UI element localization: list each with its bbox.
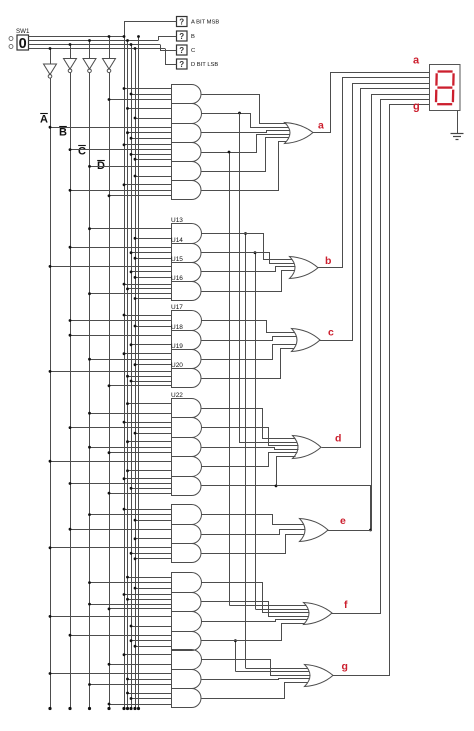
- wire U14 to OR b: [202, 253, 295, 264]
- wire input U16.1: [123, 283, 172, 286]
- AND gate G27: [172, 650, 202, 670]
- AND gate U19: [171, 343, 201, 369]
- svg-text:f: f: [344, 599, 348, 611]
- wire to B probe: [159, 37, 173, 41]
- svg-text:U22: U22: [171, 392, 183, 399]
- wire input G28.1: [49, 672, 172, 675]
- inverter U3: [83, 39, 96, 73]
- AND gate U14: [171, 237, 201, 263]
- wire d5 to OR d: [202, 457, 296, 488]
- AND gate G20: [172, 505, 202, 525]
- wire input U17.3: [134, 325, 172, 328]
- svg-text:U19: U19: [171, 343, 183, 350]
- label segment e: [340, 515, 346, 527]
- svg-text:b: b: [325, 255, 331, 267]
- wire input G24.3: [88, 603, 171, 606]
- AND gate U18: [171, 324, 201, 350]
- wire input G22.2: [130, 552, 172, 555]
- net A2 bus: [137, 35, 140, 710]
- wire segment a to display: [313, 73, 430, 133]
- wire channel vE: [234, 639, 237, 671]
- wire to D probe: [166, 49, 173, 65]
- wire input G16.1: [123, 421, 172, 424]
- wire input G25.2: [130, 625, 172, 628]
- svg-text:g: g: [342, 661, 348, 673]
- wire a1 to OR a: [202, 95, 287, 124]
- AND gate G21: [172, 525, 202, 544]
- wire input G20.2: [88, 513, 171, 516]
- label segment a: [318, 120, 324, 132]
- wire input U19.2: [88, 358, 171, 361]
- net B bus: [126, 39, 129, 710]
- wire d1 to OR d: [202, 409, 296, 439]
- svg-text:e: e: [340, 515, 346, 527]
- wire U15 to OR b: [202, 267, 296, 272]
- wire input G22.1: [49, 546, 172, 549]
- wire input U13.2: [134, 237, 172, 240]
- inverter U2: [64, 43, 77, 73]
- wire input G19.4: [108, 492, 172, 495]
- wire d3 to OR d: [202, 448, 299, 450]
- wire input G2.2: [134, 117, 172, 120]
- AND gate G16: [172, 418, 202, 438]
- svg-text:U13: U13: [171, 217, 183, 224]
- wire input G18.2: [126, 469, 171, 472]
- wire input G19.1: [123, 477, 172, 480]
- wire input G26.1: [69, 634, 172, 637]
- ground: [451, 111, 464, 140]
- wire input G1.3: [108, 98, 172, 101]
- wire input U20.2: [126, 375, 171, 378]
- wire f3 to OR f: [202, 620, 308, 622]
- wire input U13.1: [88, 227, 171, 230]
- svg-text:A BIT MSB: A BIT MSB: [191, 20, 219, 26]
- net A bus: [122, 35, 125, 710]
- IO probe C: [173, 45, 196, 55]
- AND gate G3: [172, 124, 202, 143]
- label Cbar: [78, 146, 86, 158]
- label segment b: [325, 255, 331, 267]
- AND gate G18: [172, 457, 202, 477]
- svg-text:?: ?: [179, 18, 184, 27]
- wire input G24.2: [126, 598, 171, 601]
- svg-text:B: B: [59, 127, 67, 139]
- wire e3 to OR e: [202, 535, 305, 554]
- wire a5 to OR a: [202, 138, 289, 172]
- AND gate G19: [172, 477, 202, 496]
- AND gate U17: [171, 304, 201, 331]
- wire input G24.4: [108, 608, 172, 611]
- inverter U1: [44, 47, 57, 78]
- wire input G16.2: [69, 426, 172, 429]
- svg-text:B: B: [191, 34, 195, 40]
- OR gate c: [292, 329, 321, 352]
- wire channel vC: [244, 232, 247, 668]
- svg-text:C: C: [78, 146, 86, 158]
- wire input U19.3: [134, 363, 172, 366]
- net D bus: [133, 47, 136, 710]
- wire segment d to display: [322, 89, 430, 448]
- wire input G21.2: [134, 537, 172, 540]
- wire vE to OR g: [236, 671, 310, 673]
- label segment d: [335, 433, 341, 445]
- wire input U18.1: [69, 334, 172, 337]
- wire channel vB: [239, 113, 241, 442]
- wire U17 to OR c: [202, 321, 295, 333]
- wire input G3.1: [49, 126, 172, 129]
- wire g2 to OR g: [202, 679, 310, 680]
- svg-text:g: g: [413, 101, 420, 113]
- AND gate G17: [172, 438, 202, 457]
- svg-text:C: C: [191, 48, 195, 54]
- label Dbar: [97, 160, 105, 172]
- wire input G6.1: [123, 183, 172, 186]
- AND gate U22: [171, 392, 201, 418]
- wire U13 to OR b: [202, 234, 293, 260]
- AND gate G26: [172, 632, 202, 651]
- switch SW1: [9, 28, 30, 52]
- wire input U14.2: [130, 251, 172, 254]
- net Abar bus: [48, 78, 51, 710]
- AND gate U15: [171, 256, 201, 282]
- wire input G20.3: [134, 519, 172, 522]
- wire U18 to OR c: [202, 337, 297, 341]
- wire D from SW1: [29, 48, 166, 50]
- wire input U15.3: [134, 276, 172, 279]
- AND gate G25: [172, 612, 202, 632]
- wire U16 to OR b: [202, 271, 295, 292]
- wire input U14.3: [134, 257, 172, 260]
- AND gate G22: [172, 544, 202, 563]
- svg-text:a: a: [318, 120, 324, 132]
- OR gate f: [304, 603, 333, 625]
- OR gate g: [305, 665, 334, 687]
- net Bbar bus: [68, 73, 71, 711]
- wire input G28.3: [88, 683, 171, 686]
- label display g: [413, 101, 420, 113]
- wire input G21.1: [69, 528, 172, 531]
- OR gate b: [290, 257, 319, 279]
- svg-text:SW1: SW1: [16, 28, 30, 35]
- wire input G17.3: [108, 451, 172, 454]
- AND gate G2: [172, 104, 202, 124]
- wire input U15.1: [49, 265, 172, 268]
- wire a4 to OR a: [202, 135, 290, 153]
- wire input G5.1: [88, 165, 171, 168]
- svg-text:D BIT LSB: D BIT LSB: [191, 62, 218, 68]
- wire input G24.1: [123, 593, 172, 596]
- wire input G4.4: [134, 158, 172, 161]
- OR gate e: [300, 519, 329, 542]
- wire input U22.2: [88, 412, 171, 415]
- wire segment g to display: [333, 105, 430, 676]
- svg-text:A: A: [40, 114, 48, 126]
- wire input G19.3: [130, 487, 172, 490]
- AND gate U16: [171, 275, 201, 301]
- wire input G17.2: [88, 446, 171, 449]
- wire d5 branch to e-net: [277, 486, 372, 532]
- svg-text:?: ?: [179, 46, 184, 55]
- label display a: [413, 55, 420, 67]
- OR gate d: [293, 436, 322, 459]
- wire vD to OR f: [256, 609, 309, 611]
- wire input U19.1: [123, 352, 172, 355]
- wire e2 to OR e: [202, 530, 306, 535]
- wire input U16.3: [88, 292, 171, 295]
- wire input G25.1: [49, 615, 172, 618]
- wire to C probe: [161, 45, 173, 51]
- svg-text:?: ?: [179, 32, 184, 41]
- AND gate G28: [172, 670, 202, 689]
- wire g1 to OR g: [202, 660, 311, 676]
- wire vC to OR g: [246, 668, 308, 670]
- wire input G22.3: [134, 557, 172, 560]
- AND gate G4: [172, 143, 202, 162]
- svg-text:a: a: [413, 55, 420, 67]
- svg-text:0: 0: [19, 36, 27, 52]
- wire a3 to OR a: [202, 131, 290, 133]
- wire to A probe: [125, 22, 173, 37]
- 7-segment display DS1: [430, 65, 461, 111]
- wire a2 to OR a: [202, 114, 289, 128]
- svg-text:U20: U20: [171, 362, 183, 369]
- wire input G3.2: [126, 131, 171, 134]
- wire segment b to display: [318, 78, 430, 268]
- wire input G16.3: [134, 432, 172, 435]
- wire segment f to display: [332, 100, 430, 614]
- wire input U14.1: [69, 246, 172, 249]
- wire input U15.2: [130, 271, 172, 274]
- wire input G28.2: [126, 678, 171, 681]
- IO probe A BIT MSB: [173, 17, 220, 27]
- wire input G26.3: [134, 645, 172, 648]
- wire input U16.4: [134, 297, 172, 300]
- wire input G1.1: [123, 87, 172, 90]
- wire input G29.3: [108, 703, 172, 706]
- wire vA to OR f: [230, 605, 307, 607]
- wire input G20.1: [123, 508, 172, 511]
- AND gate G23: [172, 573, 202, 593]
- wire input G5.2: [134, 175, 172, 178]
- OR gate a: [285, 123, 314, 144]
- wire e1 to OR e: [202, 515, 304, 525]
- wire U19 to OR c: [202, 345, 297, 360]
- label segment c: [328, 327, 334, 339]
- wire segment c to display: [320, 84, 430, 341]
- wire segment e to display: [328, 95, 430, 531]
- wire f4 to OR f: [202, 624, 305, 641]
- svg-text:U15: U15: [171, 256, 183, 263]
- wire input U17.1: [123, 314, 172, 317]
- wire input U20.4: [108, 384, 172, 387]
- svg-text:?: ?: [179, 60, 184, 69]
- wire g3 to OR g: [202, 683, 308, 699]
- IO probe D BIT LSB: [173, 59, 219, 69]
- wire input G4.1: [123, 143, 172, 146]
- net Dbar bus: [107, 73, 110, 711]
- svg-text:U18: U18: [171, 324, 183, 331]
- wire U20 to OR c: [202, 349, 295, 379]
- wire input G23.2: [88, 581, 171, 584]
- label Bbar: [59, 127, 67, 139]
- AND gate G1: [172, 85, 202, 104]
- wire input G23.3: [134, 587, 172, 590]
- wire input G2.1: [126, 107, 171, 110]
- wire input G4.3: [130, 153, 172, 156]
- AND gate G29: [172, 689, 202, 708]
- wire a6 to OR a: [202, 142, 287, 191]
- net C bus: [129, 43, 132, 710]
- AND gate G24: [172, 593, 202, 612]
- wire input G6.2: [69, 189, 172, 192]
- IO probe B: [173, 31, 196, 41]
- wire input U20.3: [130, 380, 172, 383]
- net Cbar bus: [88, 73, 91, 711]
- wire input G18.1: [49, 460, 172, 463]
- wire input U17.2: [69, 319, 172, 322]
- wire d4 to OR d: [202, 453, 298, 467]
- wire f2 to OR f: [202, 602, 309, 617]
- label Abar: [40, 114, 48, 126]
- wire input G3.3: [130, 137, 172, 140]
- label segment f: [344, 599, 348, 611]
- label segment g: [342, 661, 348, 673]
- wire input G6.3: [108, 194, 172, 197]
- AND gate G5: [172, 162, 202, 181]
- wire channel vD: [254, 251, 257, 609]
- AND gate G6: [172, 181, 202, 200]
- wire C from SW1: [29, 44, 161, 46]
- AND gate U20: [171, 362, 201, 388]
- wire input G1.2: [130, 93, 172, 96]
- wire input G23.1: [126, 576, 171, 579]
- wire input G17.1: [126, 440, 171, 443]
- svg-text:U16: U16: [171, 275, 183, 282]
- wire input G29.2: [130, 697, 172, 700]
- svg-text:U17: U17: [171, 304, 183, 311]
- wire A from SW1: [29, 36, 125, 38]
- wire input U16.2: [126, 288, 171, 291]
- wire f1 to OR f: [202, 583, 310, 613]
- wire vB to OR d: [240, 442, 298, 443]
- svg-text:c: c: [328, 327, 334, 339]
- svg-text:U14: U14: [171, 237, 183, 244]
- wire input U20.1: [49, 370, 172, 373]
- wire input G29.1: [126, 692, 171, 695]
- wire input G27.2: [108, 663, 172, 666]
- wire d2 to OR d: [202, 428, 299, 446]
- wire input G4.2: [69, 148, 172, 151]
- wire B from SW1: [29, 40, 159, 42]
- inverter U4: [103, 35, 116, 73]
- wire input U18.2: [130, 343, 172, 346]
- AND gate U13: [171, 217, 202, 244]
- wire input G27.1: [123, 653, 172, 656]
- svg-text:d: d: [335, 433, 341, 445]
- wire input U22.1: [126, 402, 171, 405]
- wire input G19.2: [69, 482, 172, 485]
- wire input G26.2: [130, 639, 172, 642]
- wire channel vA: [228, 112, 241, 606]
